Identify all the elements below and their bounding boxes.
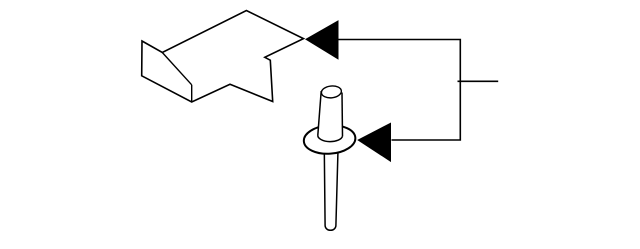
pin upper cylinder body (white fill)	[318, 91, 343, 142]
leader line from arrow 1: right, down, left to arrow 2	[338, 40, 460, 141]
pin top ellipse	[321, 85, 342, 99]
pin flange (washer)	[303, 124, 356, 156]
pin upper cylinder bottom arc	[318, 135, 343, 141]
pin lower shank	[324, 150, 338, 230]
short horizontal tick on vertical leader	[458, 80, 499, 82]
bracket interior edge (wedge diagonal)	[162, 53, 191, 85]
callout arrow 2 (to pin)	[357, 123, 391, 163]
bracket interior edge (short vertical)	[191, 85, 193, 102]
pin upper cylinder left edge	[318, 91, 321, 135]
pin upper cylinder right edge	[341, 93, 344, 137]
callout arrow 1 (to bracket)	[305, 20, 339, 60]
bracket part outline	[142, 11, 304, 103]
